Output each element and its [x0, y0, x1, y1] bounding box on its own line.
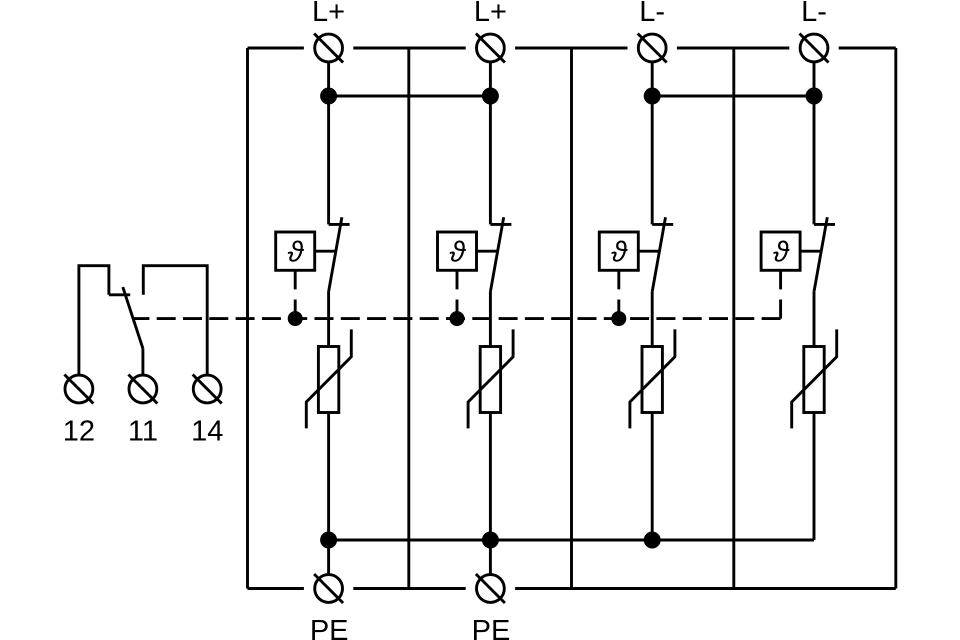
- terminal 14: [193, 375, 221, 403]
- thermal disconnect switch S4 blade: [814, 217, 827, 291]
- varistor RV2 diagonal: [468, 329, 513, 428]
- thermal disconnect switch S3 blade: [652, 217, 665, 291]
- thermal disconnect switch S1 blade: [329, 217, 342, 291]
- svg-text:ϑ: ϑ: [287, 237, 304, 269]
- wire terminal to switch (ch4): [813, 62, 816, 225]
- svg-text:11: 11: [128, 416, 158, 448]
- terminal L+ (X1): [315, 34, 343, 62]
- wire varistor to PE bus (ch3): [651, 413, 654, 541]
- thermal disconnect switch S4 fixed contact: [814, 223, 835, 226]
- wire switch to varistor (ch2): [489, 291, 492, 346]
- linkage junction dot ch1: [288, 311, 303, 326]
- varistor RV2 body: [480, 347, 500, 413]
- wire terminal to switch (ch2): [489, 62, 492, 225]
- linkage junction dot ch2: [450, 311, 465, 326]
- PE bus junction dot ch1: [320, 532, 337, 549]
- wire terminal to switch (ch3): [651, 62, 654, 225]
- PE bus junction dot ch3: [644, 532, 661, 549]
- svg-text:ϑ: ϑ: [611, 237, 628, 269]
- junction dot node L- ch3: [644, 88, 661, 105]
- svg-text:L+: L+: [312, 0, 345, 28]
- varistor RV3 diagonal: [630, 329, 675, 428]
- L- bus wire (node L-): [652, 95, 814, 98]
- junction dot node L- ch4: [806, 88, 823, 105]
- varistor RV4 body: [804, 347, 824, 413]
- junction dot node L+ ch1: [320, 88, 337, 105]
- enclosure box top edge (gaps at terminals): [248, 47, 304, 50]
- module divider 1: [407, 48, 410, 589]
- wire PE bus to PE terminal (ch2): [489, 540, 492, 575]
- enclosure box left edge: [246, 48, 249, 589]
- PE terminal (ch2): [477, 575, 505, 603]
- dashed mechanical link from F4: [779, 270, 782, 318]
- svg-text:ϑ: ϑ: [449, 237, 466, 269]
- thermal disconnect switch S2 blade: [491, 217, 504, 291]
- L+ bus wire (node L+): [329, 95, 491, 98]
- terminal 11: [129, 375, 157, 403]
- wire switch to varistor (ch3): [651, 291, 654, 346]
- link thermal element F1 to switch S1: [315, 250, 336, 253]
- module divider 3: [732, 48, 735, 589]
- varistor RV4 diagonal: [792, 329, 837, 428]
- wire varistor to PE bus (ch1): [327, 413, 330, 541]
- terminal L- (X4): [800, 34, 828, 62]
- dashed mechanical link from F2: [456, 270, 459, 318]
- svg-text:L+: L+: [474, 0, 507, 28]
- link thermal element F4 to switch S4: [800, 250, 821, 253]
- enclosure box bottom edge (gaps at PE terminals): [248, 587, 304, 590]
- wire PE bus to PE terminal (ch1): [327, 540, 330, 575]
- PE bus wire (node PE): [329, 539, 814, 542]
- svg-text:ϑ: ϑ: [773, 237, 790, 269]
- svg-text:L-: L-: [639, 0, 665, 28]
- PE bus junction dot ch2: [482, 532, 499, 549]
- thermal disconnect switch S3 fixed contact: [652, 223, 673, 226]
- wire switch to varistor (ch1): [327, 291, 330, 346]
- svg-text:12: 12: [63, 416, 95, 448]
- svg-text:PE: PE: [472, 615, 511, 640]
- thermal disconnect switch S2 fixed contact: [490, 223, 511, 226]
- remote contact: wire terminal 14 to NO contact: [143, 266, 207, 375]
- terminal L+ (X2): [477, 34, 505, 62]
- PE terminal (ch1): [315, 575, 343, 603]
- svg-text:PE: PE: [310, 615, 349, 640]
- module divider 2: [570, 48, 573, 589]
- thermal element F1 (box with theta): [276, 232, 315, 270]
- thermal element F2 (box with theta): [438, 232, 477, 270]
- dashed mechanical link from F3: [617, 270, 620, 318]
- terminal 12: [65, 375, 93, 403]
- wire blade to terminal 11: [141, 348, 144, 375]
- enclosure box right edge: [894, 48, 897, 589]
- dashed mechanical linkage line: [133, 317, 781, 320]
- terminal L- (X3): [638, 34, 666, 62]
- wire terminal to switch (ch1): [327, 62, 330, 225]
- varistor RV1 body: [318, 347, 338, 413]
- svg-text:14: 14: [191, 416, 223, 448]
- thermal element F4 (box with theta): [761, 232, 800, 270]
- varistor RV3 body: [642, 347, 662, 413]
- junction dot node L+ ch2: [482, 88, 499, 105]
- link thermal element F3 to switch S3: [638, 250, 659, 253]
- remote contact: NC fixed contact tick: [109, 293, 130, 296]
- dashed mechanical link from F1: [294, 270, 297, 318]
- remote contact: changeover blade (common 11): [123, 287, 143, 348]
- wire varistor to PE bus (ch2): [489, 413, 492, 541]
- thermal disconnect switch S1 fixed contact: [329, 223, 350, 226]
- wire switch to varistor (ch4): [813, 291, 816, 346]
- remote contact: wire terminal 12 to NC contact: [79, 266, 109, 375]
- wire varistor to PE bus (ch4): [813, 413, 816, 541]
- link thermal element F2 to switch S2: [477, 250, 498, 253]
- thermal element F3 (box with theta): [599, 232, 638, 270]
- varistor RV1 diagonal: [306, 329, 351, 428]
- svg-text:L-: L-: [801, 0, 827, 28]
- linkage junction dot ch3: [611, 311, 626, 326]
